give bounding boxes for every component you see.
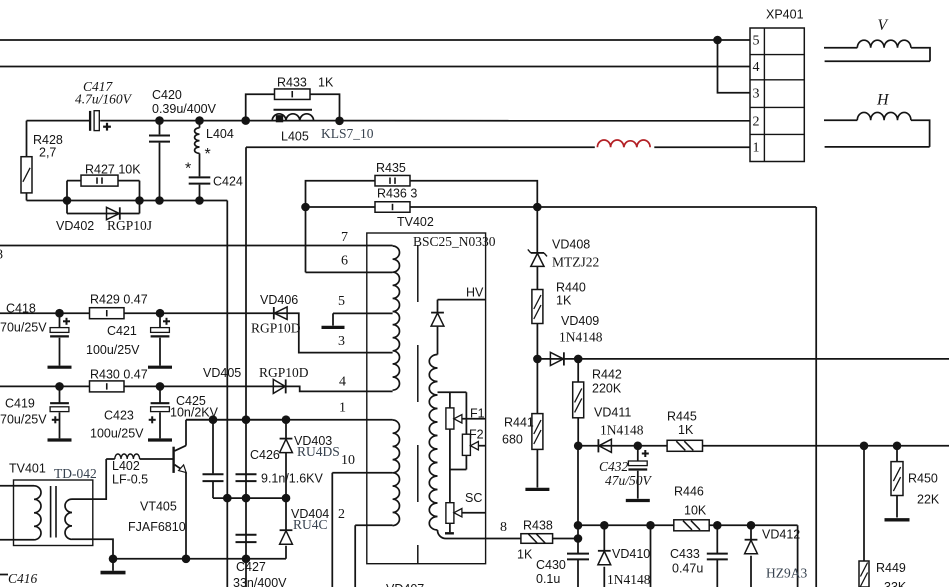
svg-text:10: 10 <box>341 453 355 468</box>
svg-text:R436 3: R436 3 <box>377 187 417 201</box>
svg-text:VD412: VD412 <box>762 528 800 542</box>
svg-text:V: V <box>878 17 889 34</box>
svg-text:L405: L405 <box>281 130 309 144</box>
svg-text:C421: C421 <box>107 324 137 338</box>
svg-text:C424: C424 <box>213 175 243 189</box>
svg-text:LF-0.5: LF-0.5 <box>112 473 148 487</box>
svg-text:VD409: VD409 <box>561 314 599 328</box>
svg-text:RU4C: RU4C <box>293 517 328 532</box>
svg-text:R446: R446 <box>674 485 704 499</box>
svg-text:RU4DS: RU4DS <box>297 444 340 459</box>
svg-text:33K: 33K <box>884 580 907 587</box>
svg-text:HV: HV <box>466 286 484 300</box>
svg-text:4.7u/160V: 4.7u/160V <box>75 92 133 107</box>
svg-text:XP401: XP401 <box>766 8 804 22</box>
svg-text:C426: C426 <box>250 448 280 462</box>
svg-text:C416: C416 <box>8 571 38 586</box>
svg-text:VD405: VD405 <box>203 366 241 380</box>
svg-text:VD408: VD408 <box>552 238 590 252</box>
svg-text:*: * <box>205 146 211 163</box>
svg-text:L402: L402 <box>112 459 140 473</box>
svg-text:3: 3 <box>338 334 345 349</box>
svg-text:C433: C433 <box>670 547 700 561</box>
svg-text:1K: 1K <box>556 294 572 308</box>
svg-text:10K: 10K <box>684 504 707 518</box>
svg-text:220K: 220K <box>592 382 622 396</box>
svg-text:R442: R442 <box>592 368 622 382</box>
svg-text:8: 8 <box>0 248 3 263</box>
svg-text:10n/2KV: 10n/2KV <box>170 406 219 420</box>
svg-text:4: 4 <box>753 60 760 75</box>
svg-text:1N4148: 1N4148 <box>559 330 603 345</box>
svg-text:70u/25V: 70u/25V <box>0 413 47 427</box>
svg-text:C420: C420 <box>152 88 182 102</box>
svg-text:7: 7 <box>341 230 348 245</box>
svg-text:C418: C418 <box>6 302 36 316</box>
svg-text:C423: C423 <box>104 409 134 423</box>
svg-text:R433: R433 <box>277 76 307 90</box>
svg-text:2: 2 <box>338 507 345 522</box>
svg-text:SC: SC <box>465 491 482 505</box>
svg-text:C430: C430 <box>536 558 566 572</box>
svg-text:KLS7_10: KLS7_10 <box>321 126 374 141</box>
svg-text:VD407: VD407 <box>386 582 424 587</box>
svg-text:R430 0.47: R430 0.47 <box>90 368 148 382</box>
svg-text:1N4148: 1N4148 <box>607 572 651 587</box>
svg-text:RGP10D: RGP10D <box>251 321 301 336</box>
svg-text:3: 3 <box>753 87 760 102</box>
svg-text:C432: C432 <box>599 459 629 474</box>
svg-text:70u/25V: 70u/25V <box>0 321 47 335</box>
svg-text:2: 2 <box>753 115 760 130</box>
svg-text:47u/50V: 47u/50V <box>605 473 653 488</box>
svg-text:100u/25V: 100u/25V <box>90 427 144 441</box>
svg-text:R438: R438 <box>523 519 553 533</box>
svg-text:VD410: VD410 <box>612 547 650 561</box>
svg-text:6: 6 <box>341 254 348 269</box>
svg-text:*: * <box>185 161 191 178</box>
svg-text:L404: L404 <box>206 127 234 141</box>
svg-text:VD411: VD411 <box>594 406 631 420</box>
svg-text:0.39u/400V: 0.39u/400V <box>152 102 217 116</box>
svg-text:R441: R441 <box>504 416 534 430</box>
svg-text:FJAF6810: FJAF6810 <box>128 520 186 534</box>
svg-text:0.47u: 0.47u <box>672 562 703 576</box>
svg-text:F2: F2 <box>469 428 484 442</box>
svg-text:R427 10K: R427 10K <box>85 163 141 177</box>
svg-text:22K: 22K <box>917 493 940 507</box>
svg-text:100u/25V: 100u/25V <box>86 343 140 357</box>
svg-text:1K: 1K <box>318 76 334 90</box>
svg-text:RGP10D: RGP10D <box>259 365 309 380</box>
svg-text:4: 4 <box>339 375 346 390</box>
svg-text:33n/400V: 33n/400V <box>233 576 287 587</box>
svg-text:BSC25_N0330: BSC25_N0330 <box>413 234 496 249</box>
svg-text:HZ9A3: HZ9A3 <box>766 566 807 581</box>
svg-text:1K: 1K <box>517 548 533 562</box>
svg-text:C427: C427 <box>236 560 266 574</box>
svg-text:H: H <box>876 92 890 109</box>
svg-text:8: 8 <box>500 520 507 535</box>
svg-text:1: 1 <box>753 141 760 156</box>
svg-text:2,7: 2,7 <box>39 146 56 160</box>
svg-text:TV402: TV402 <box>397 215 434 229</box>
svg-text:680: 680 <box>502 433 523 447</box>
svg-text:R440: R440 <box>556 281 586 295</box>
svg-text:1: 1 <box>339 401 346 416</box>
svg-text:0.1u: 0.1u <box>536 572 560 586</box>
svg-text:R445: R445 <box>667 410 697 424</box>
svg-text:MTZJ22: MTZJ22 <box>552 255 599 270</box>
svg-text:VT405: VT405 <box>140 500 177 514</box>
svg-text:VD402: VD402 <box>56 219 94 233</box>
svg-text:TV401: TV401 <box>9 462 46 476</box>
svg-text:R429 0.47: R429 0.47 <box>90 293 148 307</box>
svg-text:R449: R449 <box>876 561 906 575</box>
svg-text:5: 5 <box>753 34 760 49</box>
svg-text:1N4148: 1N4148 <box>600 423 644 438</box>
svg-text:R450: R450 <box>908 472 938 486</box>
svg-text:RGP10J: RGP10J <box>107 218 152 233</box>
svg-text:5: 5 <box>338 294 345 309</box>
svg-text:1K: 1K <box>678 423 694 437</box>
svg-text:9.1n/1.6KV: 9.1n/1.6KV <box>261 472 324 486</box>
svg-text:VD406: VD406 <box>260 293 298 307</box>
svg-text:F1: F1 <box>470 407 485 421</box>
svg-text:C419: C419 <box>5 397 35 411</box>
svg-text:TD-042: TD-042 <box>54 466 97 481</box>
svg-text:R435: R435 <box>376 161 406 175</box>
